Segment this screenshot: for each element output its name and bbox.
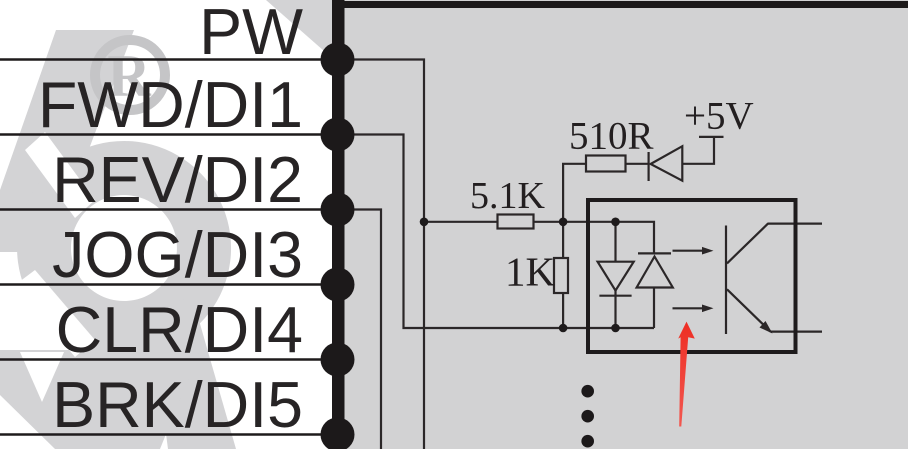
svg-text:FWD/DI1: FWD/DI1 <box>38 69 303 141</box>
svg-text:1K: 1K <box>505 249 556 295</box>
svg-text:REV/DI2: REV/DI2 <box>52 144 303 216</box>
svg-text:510R: 510R <box>569 115 654 158</box>
svg-text:+5V: +5V <box>684 94 754 137</box>
svg-text:CLR/DI4: CLR/DI4 <box>56 294 303 366</box>
svg-text:PW: PW <box>199 0 303 68</box>
svg-text:BRK/DI5: BRK/DI5 <box>52 369 303 441</box>
svg-text:5.1K: 5.1K <box>470 175 546 217</box>
svg-text:JOG/DI3: JOG/DI3 <box>52 219 303 291</box>
